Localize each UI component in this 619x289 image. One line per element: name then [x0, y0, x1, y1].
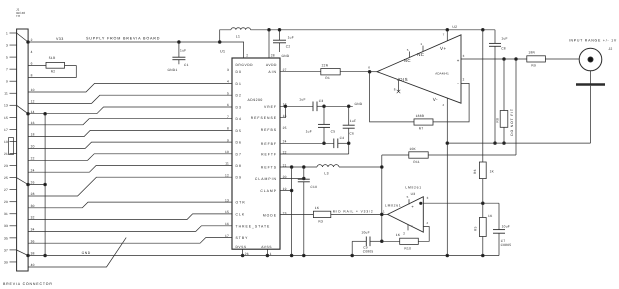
- junction on V33 at C1: [178, 41, 181, 44]
- svg-text:39: 39: [4, 260, 8, 264]
- junction V- GND line: [446, 142, 449, 145]
- junction +in R11 column: [515, 58, 518, 61]
- svg-text:C2: C2: [286, 45, 291, 49]
- IC U1 pin 28 AVDD stub: [269, 30, 275, 58]
- capacitor C5: [306, 106, 336, 143]
- wire to GND label: [324, 102, 363, 106]
- op-amp U2 pin 8 DIS stub: [394, 80, 401, 93]
- svg-text:1uF: 1uF: [299, 98, 305, 102]
- svg-text:51R: 51R: [49, 56, 56, 60]
- svg-text:16: 16: [31, 121, 35, 125]
- svg-text:LM8261: LM8261: [405, 186, 421, 190]
- svg-text:R9: R9: [531, 63, 536, 67]
- svg-text:U2: U2: [452, 25, 457, 29]
- resistor R2: [28, 56, 76, 77]
- svg-text:TH: TH: [16, 14, 20, 18]
- svg-text:CLAMPIN: CLAMPIN: [255, 177, 277, 181]
- svg-text:6: 6: [31, 62, 33, 66]
- svg-text:D3: D3: [236, 106, 242, 110]
- capacitor C7: [493, 203, 511, 255]
- svg-text:L1: L1: [236, 35, 240, 39]
- wire +3V3 top rail: [251, 29, 496, 31]
- junction +in R8: [503, 58, 506, 61]
- svg-text:3: 3: [227, 68, 229, 72]
- svg-text:5: 5: [407, 48, 409, 52]
- svg-text:8: 8: [31, 74, 33, 78]
- wire R7 to U2 -in: [433, 78, 469, 122]
- junction GND rail U2 V- branch: [446, 254, 449, 257]
- wire J1-30 to OTR: [28, 202, 232, 208]
- capacitor C2: [273, 30, 294, 52]
- svg-text:29: 29: [4, 200, 8, 204]
- svg-text:D5: D5: [236, 129, 242, 133]
- svg-text:R7: R7: [419, 127, 424, 131]
- svg-text:4: 4: [31, 50, 33, 54]
- wire CLAMP to GND: [280, 167, 293, 256]
- svg-text:2: 2: [31, 38, 33, 42]
- wire analog GND line: [447, 142, 590, 144]
- ground symbol J2 shield: [576, 71, 605, 143]
- wire J1-18 to D5: [28, 130, 232, 136]
- wire J1-28 to D9: [28, 177, 232, 196]
- resistor R9: [527, 51, 579, 68]
- svg-text:7: 7: [6, 68, 8, 72]
- svg-text:3: 3: [427, 196, 429, 200]
- svg-text:1uF: 1uF: [180, 49, 186, 53]
- connector J1 pin25-26 link: [17, 178, 30, 186]
- svg-text:R10: R10: [404, 246, 411, 250]
- svg-text:6: 6: [368, 65, 370, 69]
- junction top rail C2: [278, 29, 281, 32]
- svg-text:GND: GND: [282, 54, 290, 58]
- svg-text:STBY: STBY: [236, 236, 249, 240]
- junction top rail pin28: [268, 29, 271, 32]
- svg-text:ADA4841: ADA4841: [435, 72, 449, 76]
- wire REFBF line: [280, 142, 334, 144]
- svg-text:9: 9: [6, 80, 8, 84]
- wire J1-34 to THREE_STATE: [28, 226, 232, 232]
- wire mid-rail column: [381, 155, 384, 243]
- svg-text:33: 33: [4, 224, 8, 228]
- connector J1 title: [3, 282, 53, 286]
- svg-text:13: 13: [225, 198, 229, 202]
- svg-text:12: 12: [225, 173, 229, 177]
- wire J1-24 to D8: [28, 166, 232, 173]
- svg-text:D0: D0: [236, 70, 242, 74]
- capacitor C8: [489, 30, 508, 143]
- svg-text:C0805: C0805: [501, 243, 512, 247]
- svg-text:GND: GND: [82, 251, 91, 255]
- IC U1 AD9200 body: [220, 50, 280, 250]
- svg-text:INPUT RANGE +/- 1V: INPUT RANGE +/- 1V: [569, 38, 617, 42]
- svg-text:28: 28: [31, 192, 35, 196]
- svg-text:REFBS: REFBS: [261, 128, 277, 132]
- wire REFTS line: [280, 166, 382, 168]
- svg-text:D1: D1: [236, 82, 242, 86]
- svg-text:5: 5: [407, 195, 409, 199]
- wire V33 to R6: [482, 30, 484, 162]
- resistor R7: [414, 114, 433, 131]
- svg-text:3: 3: [463, 54, 465, 58]
- svg-text:7: 7: [443, 33, 445, 37]
- wire R10 to output node: [382, 240, 400, 242]
- svg-text:D8: D8: [236, 164, 242, 168]
- svg-text:11: 11: [4, 92, 8, 96]
- connector J1 labels: [16, 8, 25, 19]
- svg-text:17: 17: [225, 234, 229, 238]
- resistor R1: [321, 63, 370, 79]
- svg-text:34: 34: [31, 228, 35, 232]
- svg-text:22: 22: [31, 156, 35, 160]
- svg-text:REFSENSE: REFSENSE: [251, 116, 277, 120]
- svg-text:BREVIA CONNECTOR: BREVIA CONNECTOR: [3, 282, 53, 286]
- svg-text:23: 23: [283, 211, 287, 215]
- svg-text:REFTS: REFTS: [261, 166, 277, 170]
- capacitor C9: [352, 230, 382, 253]
- op-amp U3 LM8261: [382, 186, 429, 236]
- svg-text:AVSS: AVSS: [261, 245, 272, 249]
- svg-text:4: 4: [426, 221, 428, 225]
- wire U3 -in feedback: [418, 227, 429, 242]
- inductor L3: [317, 165, 339, 176]
- IC U1 left pin names and numbers: [225, 68, 270, 240]
- wire VREF line: [285, 105, 313, 107]
- svg-text:8: 8: [394, 87, 396, 91]
- svg-text:2: 2: [463, 78, 465, 82]
- svg-text:+: +: [457, 58, 460, 63]
- svg-text:27: 27: [4, 188, 8, 192]
- wire GND rail bottom: [28, 251, 499, 255]
- svg-text:10: 10: [31, 88, 35, 92]
- wire J1-40 to STBY: [28, 238, 126, 267]
- resistor R3: [313, 206, 330, 224]
- svg-text:11: 11: [225, 162, 229, 166]
- op-amp U2 pin7 V+ stub: [446, 30, 448, 41]
- connector J1 pin1-2 link: [17, 33, 30, 43]
- svg-text:32: 32: [31, 216, 35, 220]
- svg-text:19: 19: [4, 140, 8, 144]
- junction VREF line C5: [323, 105, 326, 108]
- op-amp U2 ADA4841: [368, 25, 461, 103]
- svg-text:CLK: CLK: [236, 212, 246, 216]
- wire AIN to R1: [280, 71, 321, 73]
- svg-text:16: 16: [225, 222, 229, 226]
- svg-text:D9: D9: [236, 176, 242, 180]
- svg-text:R8: R8: [495, 118, 499, 123]
- svg-text:23: 23: [4, 164, 8, 168]
- svg-text:R11: R11: [413, 160, 420, 164]
- resistor R5: [474, 203, 493, 255]
- svg-text:C10: C10: [310, 185, 317, 189]
- svg-text:26: 26: [31, 181, 35, 185]
- wire J1-14 to D3 (GND): [28, 107, 232, 114]
- svg-text:1K: 1K: [396, 233, 401, 237]
- op-amp U2 NC pin 5: [404, 48, 411, 63]
- svg-text:C4: C4: [340, 136, 345, 140]
- wire C9 to GND rail: [351, 241, 353, 255]
- wire U2 pin4 V- to GND: [442, 98, 447, 255]
- ground GND at C2: [282, 54, 290, 58]
- svg-text:AIN: AIN: [268, 70, 277, 74]
- svg-text:25: 25: [283, 126, 287, 130]
- svg-text:10: 10: [225, 150, 229, 154]
- svg-text:21: 21: [4, 152, 8, 156]
- svg-text:MID RAIL = V33/2: MID RAIL = V33/2: [333, 209, 374, 213]
- resistor R11: [382, 147, 516, 164]
- junction REFTS CLAMP branch: [290, 166, 293, 169]
- svg-text:D4: D4: [236, 117, 242, 121]
- svg-text:6: 6: [227, 103, 229, 107]
- svg-text:CLAMP: CLAMP: [260, 189, 277, 193]
- svg-text:5: 5: [6, 56, 8, 60]
- wire J1-36 to STBY: [28, 238, 232, 244]
- wire GND bus vertical: [44, 112, 47, 256]
- svg-text:C0805: C0805: [363, 249, 374, 253]
- svg-text:NC: NC: [417, 52, 424, 57]
- svg-text:1uF: 1uF: [306, 130, 312, 134]
- svg-text:22R: 22R: [322, 63, 329, 67]
- wire J1-26 to GND bus: [28, 184, 45, 186]
- capacitor C10: [298, 167, 317, 256]
- svg-text:DVSS: DVSS: [236, 245, 247, 249]
- svg-text:13: 13: [4, 104, 8, 108]
- inductor L1: [220, 28, 251, 42]
- svg-text:V+: V+: [440, 46, 447, 51]
- resistor R6: [473, 162, 495, 203]
- svg-text:D2: D2: [236, 94, 242, 98]
- svg-text:5: 5: [227, 91, 229, 95]
- wire U2 feedback loop: [370, 72, 414, 122]
- svg-text:V33: V33: [56, 37, 64, 41]
- svg-text:U3: U3: [411, 192, 416, 196]
- net V33 supply wire: [28, 36, 244, 58]
- connector J1 pin13-14 link: [17, 105, 30, 115]
- junction GND rail R5 branch: [482, 254, 485, 257]
- svg-text:10uF: 10uF: [502, 225, 510, 229]
- svg-text:10uF: 10uF: [361, 230, 369, 234]
- IC U1 pin 2 DRVDD stub: [246, 54, 248, 58]
- svg-text:D7: D7: [236, 152, 242, 156]
- svg-text:24: 24: [31, 168, 35, 172]
- svg-text:20: 20: [31, 145, 35, 149]
- junction GND rail C9 branch: [351, 254, 354, 257]
- wire J1-16 to D4: [28, 119, 232, 125]
- wire U3 +in to divider node: [420, 202, 499, 204]
- wire R11 to U2 +in node: [515, 59, 517, 155]
- svg-text:LM8261: LM8261: [385, 204, 401, 208]
- svg-text:31: 31: [4, 212, 8, 216]
- svg-text:1uF: 1uF: [288, 35, 294, 39]
- svg-text:C3: C3: [319, 99, 324, 103]
- svg-text:C8: C8: [501, 47, 506, 51]
- junction top rail U2 V+: [446, 29, 449, 32]
- svg-text:AD9200: AD9200: [248, 98, 263, 102]
- junction GND rail C10 branch: [303, 254, 306, 257]
- svg-text:REFBF: REFBF: [261, 142, 277, 146]
- svg-text:10K: 10K: [409, 147, 416, 151]
- capacitor C4: [334, 136, 349, 148]
- svg-text:30: 30: [31, 204, 35, 208]
- svg-text:14: 14: [31, 110, 35, 114]
- svg-text:1: 1: [420, 42, 422, 46]
- connector J1 odd pins 1-39: [4, 31, 17, 264]
- wire REFTF line: [280, 153, 349, 155]
- svg-text:REFTF: REFTF: [261, 153, 277, 157]
- connector J2: [569, 38, 617, 70]
- svg-text:J2: J2: [608, 47, 612, 51]
- svg-text:12: 12: [31, 100, 35, 104]
- svg-text:1K: 1K: [315, 206, 320, 210]
- svg-text:GND: GND: [355, 102, 363, 106]
- svg-text:U1: U1: [220, 50, 225, 54]
- wire MODE line: [280, 213, 382, 215]
- wire U2 +in line: [461, 54, 527, 59]
- ground GND1 at C1: [168, 68, 178, 72]
- svg-text:R6: R6: [473, 169, 477, 174]
- svg-text:AVDD: AVDD: [266, 63, 277, 67]
- svg-text:2: 2: [403, 231, 405, 235]
- svg-text:R5: R5: [474, 226, 478, 231]
- junction U2 output: [368, 70, 377, 73]
- svg-text:C1: C1: [184, 63, 189, 67]
- svg-text:28: 28: [271, 54, 275, 58]
- svg-text:C6: C6: [349, 132, 354, 136]
- net MID RAIL label: [333, 209, 374, 213]
- connector J1 key bracket: [9, 138, 14, 155]
- IC U1 pin 26 DVSS stub: [241, 249, 248, 257]
- resistor R10: [396, 233, 419, 250]
- svg-text:L3: L3: [324, 172, 328, 176]
- svg-text:DO NOT FIT: DO NOT FIT: [510, 108, 514, 136]
- svg-text:4: 4: [227, 80, 229, 84]
- svg-text:8: 8: [227, 127, 229, 131]
- wire VREF to REFSENSE loop: [280, 105, 287, 118]
- connector J1 body: [17, 29, 29, 271]
- svg-text:7: 7: [227, 115, 229, 119]
- svg-text:38: 38: [31, 252, 35, 256]
- svg-text:/DIS: /DIS: [398, 77, 409, 82]
- junction top rail divider: [482, 29, 485, 32]
- junction divider node: [482, 202, 485, 205]
- svg-text:R3: R3: [318, 219, 323, 223]
- svg-text:15: 15: [225, 210, 229, 214]
- svg-text:SUPPLY FROM BREVIA BOARD: SUPPLY FROM BREVIA BOARD: [86, 36, 160, 40]
- IC U1 pin 1 AVSS stub: [266, 249, 271, 257]
- connector J1 pin37-38 link: [17, 250, 30, 257]
- svg-text:MODE: MODE: [263, 214, 277, 218]
- connector J1 even pin labels: [31, 38, 35, 267]
- svg-text:40: 40: [31, 263, 35, 267]
- junction GND stub C6: [347, 105, 350, 108]
- wire J1-20 to D6: [28, 142, 232, 148]
- svg-text:37: 37: [4, 248, 8, 252]
- junction R8 GND line: [503, 142, 506, 145]
- svg-text:C5: C5: [331, 130, 336, 134]
- svg-text:V-: V-: [433, 97, 438, 102]
- svg-text:D6: D6: [236, 141, 242, 145]
- wire CLAMPIN stub: [280, 177, 305, 180]
- wire J1-32 to CLK: [28, 214, 232, 220]
- junction on V33 at L1: [218, 41, 221, 44]
- junction REFBF line C5: [323, 142, 326, 145]
- svg-text:4: 4: [442, 103, 444, 107]
- svg-text:NC: NC: [404, 58, 411, 63]
- svg-text:1uF: 1uF: [501, 36, 507, 40]
- IC U1 right pin names and numbers: [251, 68, 287, 217]
- svg-text:25: 25: [4, 176, 8, 180]
- svg-text:1: 1: [383, 210, 385, 214]
- junction C8 GND line: [494, 142, 497, 145]
- svg-text:OTR: OTR: [236, 201, 246, 205]
- svg-text:15: 15: [4, 116, 8, 120]
- wire J1-10 to D1: [28, 83, 232, 92]
- svg-text:2: 2: [246, 54, 248, 58]
- resistor R8 do-not-fit: [495, 59, 513, 143]
- svg-text:36: 36: [31, 239, 35, 243]
- junction GND rail CLAMP branch: [290, 254, 293, 257]
- svg-text:18: 18: [31, 133, 35, 137]
- svg-text:1K: 1K: [488, 214, 493, 218]
- capacitor C3: [299, 98, 324, 112]
- junction C6 REFBF: [347, 142, 350, 145]
- svg-text:1: 1: [6, 31, 8, 35]
- svg-text:DRGVDD: DRGVDD: [236, 63, 254, 67]
- svg-text:3: 3: [6, 43, 8, 47]
- junction REFTS C10 branch: [303, 166, 306, 169]
- op-amp U2 NC pin 1: [417, 42, 424, 57]
- svg-text:188R: 188R: [416, 114, 425, 118]
- svg-text:1uF: 1uF: [350, 119, 356, 123]
- svg-text:VREF: VREF: [264, 105, 277, 109]
- wire J1-22 to D7: [28, 154, 232, 161]
- svg-text:18R: 18R: [528, 51, 535, 55]
- svg-text:1K: 1K: [490, 169, 495, 173]
- capacitor C1: [172, 42, 188, 67]
- svg-text:9: 9: [227, 138, 229, 142]
- svg-text:17: 17: [4, 128, 8, 132]
- svg-text:THREE_STATE: THREE_STATE: [236, 224, 271, 228]
- svg-text:R1: R1: [325, 76, 330, 80]
- svg-text:R2: R2: [51, 69, 56, 73]
- wire J1-12 to D2: [28, 95, 232, 103]
- svg-text:35: 35: [4, 236, 8, 240]
- capacitor C6: [343, 106, 357, 154]
- svg-text:GND1: GND1: [168, 68, 178, 72]
